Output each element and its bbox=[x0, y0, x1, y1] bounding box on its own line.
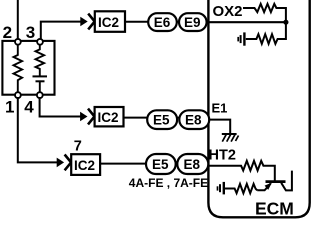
svg-text:ECM: ECM bbox=[255, 198, 294, 218]
svg-text:E9: E9 bbox=[184, 15, 201, 30]
terminal E8 (row 3) bbox=[177, 154, 208, 174]
ground G3 (bar style) bbox=[218, 182, 224, 195]
resistor R6 (HT2 emitter/ground branch) bbox=[225, 184, 257, 193]
ECM case outline bbox=[208, 0, 309, 217]
pin 4 node bbox=[37, 92, 43, 98]
arrowhead row 2 bbox=[80, 112, 87, 122]
terminal E9 bbox=[179, 13, 207, 31]
svg-text:E5: E5 bbox=[152, 157, 169, 172]
arrowhead row 1 bbox=[80, 17, 87, 27]
ground G1 (bar style) bbox=[238, 32, 244, 45]
svg-text:E8: E8 bbox=[185, 113, 202, 128]
chevron row 1 bbox=[88, 14, 95, 30]
wire: IC2 row2 to ECM bbox=[124, 117, 209, 119]
terminal E5 (row 2) bbox=[147, 110, 177, 129]
svg-text:IC2: IC2 bbox=[98, 15, 119, 30]
capacitor plate lower bbox=[36, 80, 45, 82]
transistor Q1 base bar bbox=[266, 180, 286, 183]
wire: IC2 row1 to ECM bbox=[125, 21, 208, 23]
wire: pin 1 down and right to IC2 row 3 bbox=[18, 95, 58, 162]
wire: IC2 row3 to ECM bbox=[100, 163, 208, 165]
terminal E6 bbox=[148, 13, 177, 31]
junction node on OX2 bbox=[283, 20, 288, 25]
svg-text:3: 3 bbox=[26, 23, 35, 42]
resistor R4 (OX2 ground branch) bbox=[246, 22, 286, 44]
svg-text:HT2: HT2 bbox=[209, 147, 236, 163]
chevron row 3 bbox=[65, 155, 72, 171]
wire: capacitor to pin 4 bbox=[39, 81, 41, 95]
arrowhead row 3 bbox=[57, 158, 64, 168]
IC2 box row 2 bbox=[95, 107, 124, 126]
svg-text:E6: E6 bbox=[154, 15, 171, 30]
capacitor plate upper bbox=[33, 75, 48, 77]
wire: E1 pin to ground bbox=[208, 120, 230, 134]
pin 1 node bbox=[15, 92, 21, 98]
svg-text:2: 2 bbox=[3, 23, 12, 42]
IC2 box row 3 bbox=[71, 154, 100, 175]
chevron row 2 bbox=[88, 109, 95, 125]
pin 2 node bbox=[15, 39, 21, 45]
wire: OX2 pin to junction bbox=[208, 21, 286, 23]
resistor R3 (OX2 pull-up branch) bbox=[243, 4, 286, 21]
ground G2 (hatched) bbox=[222, 134, 239, 142]
svg-text:E5: E5 bbox=[153, 113, 170, 128]
svg-text:OX2: OX2 bbox=[213, 3, 243, 20]
svg-text:7: 7 bbox=[74, 139, 82, 155]
oxygen sensor connector box bbox=[2, 41, 54, 95]
wire: sensor feed from top bbox=[17, 0, 19, 42]
resistor R5 (HT2 base resistor) bbox=[208, 161, 274, 181]
svg-text:1: 1 bbox=[5, 97, 14, 116]
terminal E5 (row 3) bbox=[146, 154, 176, 174]
wire: pin 3 up and right to IC2 row 1 bbox=[41, 22, 82, 42]
svg-text:4: 4 bbox=[24, 97, 34, 116]
IC2 box row 1 bbox=[95, 11, 125, 32]
transistor Q1 collector bbox=[281, 171, 292, 191]
resistor R2 (heater element, right leg) bbox=[36, 42, 45, 76]
terminal E8 (row 2) bbox=[179, 110, 209, 129]
svg-text:4A-FE , 7A-FE: 4A-FE , 7A-FE bbox=[129, 176, 208, 190]
svg-text:E8: E8 bbox=[184, 157, 201, 172]
svg-text:IC2: IC2 bbox=[74, 158, 95, 173]
svg-text:IC2: IC2 bbox=[98, 110, 119, 125]
resistor R1 (sensor element, left leg) bbox=[14, 42, 23, 95]
transistor Q1 emitter with arrow bbox=[257, 184, 270, 191]
wire: pin 4 down and right to IC2 row 2 bbox=[40, 95, 82, 116]
svg-text:E1: E1 bbox=[212, 100, 228, 115]
pin 3 node bbox=[37, 39, 43, 45]
